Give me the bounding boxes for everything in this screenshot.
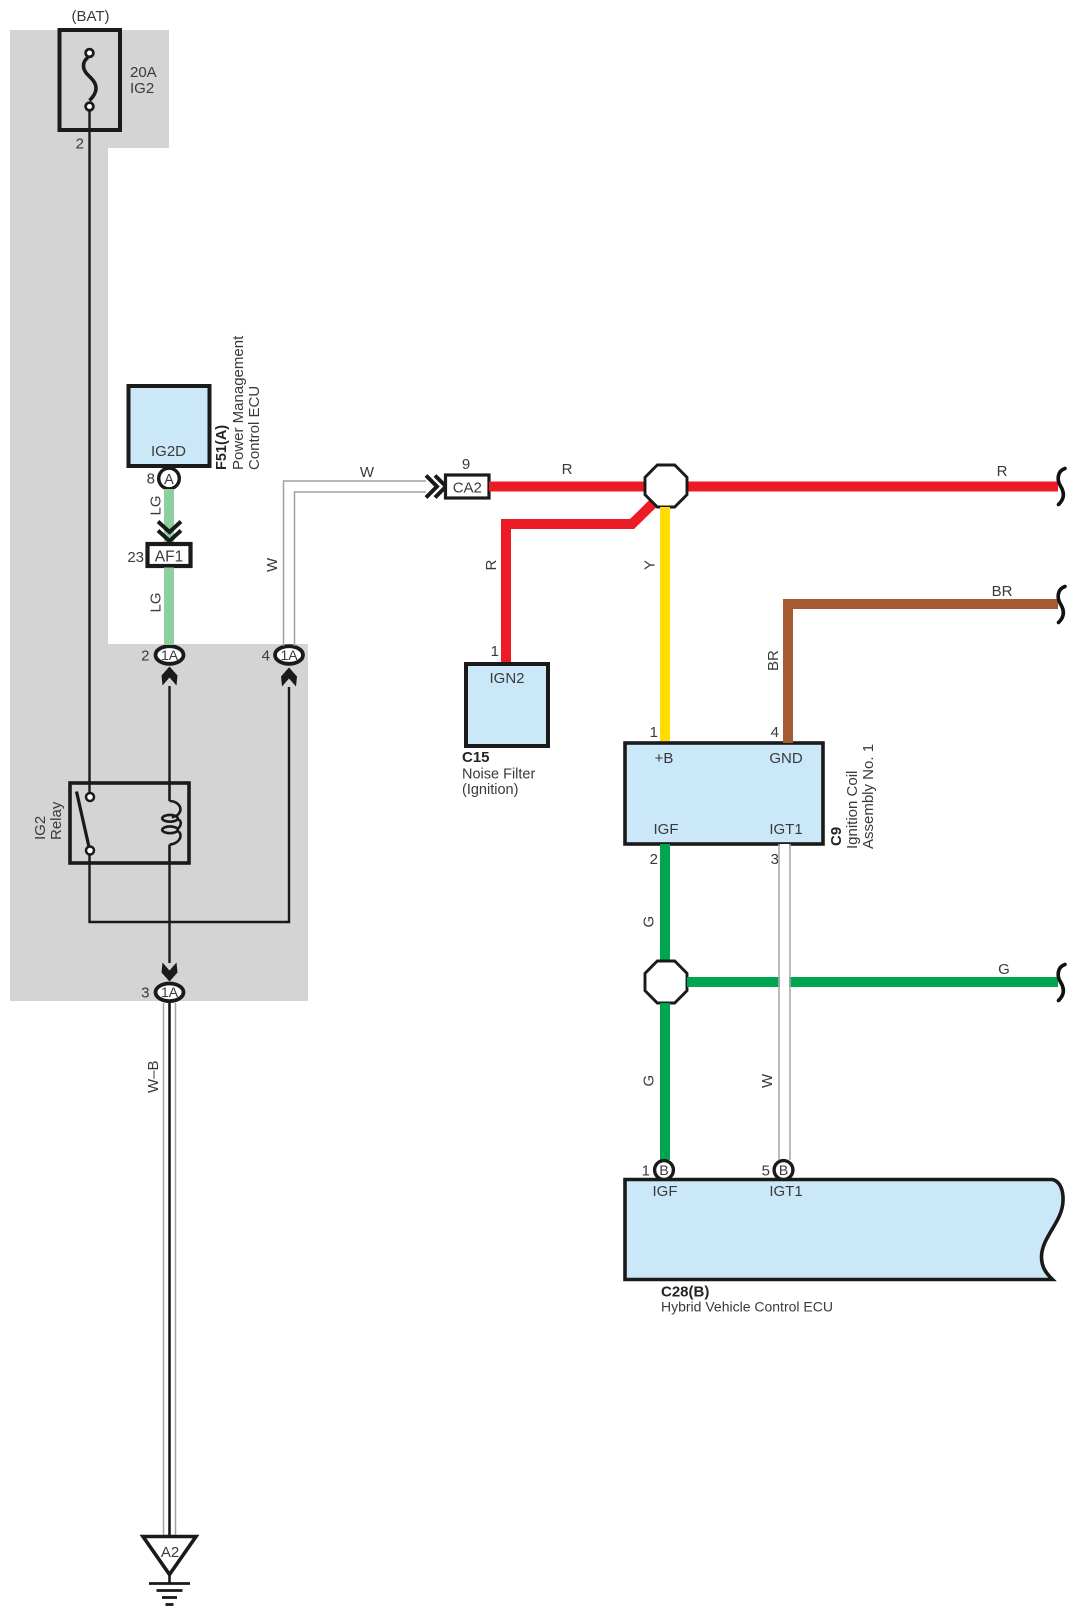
continuation curl BR right xyxy=(1058,587,1065,623)
svg-text:Ignition Coil: Ignition Coil xyxy=(844,771,861,849)
wire W-B from connector 1A pin3 to ground xyxy=(145,1003,176,1537)
wire relay coil down xyxy=(168,863,170,963)
svg-text:IGN2: IGN2 xyxy=(489,670,524,687)
wire G junction to right edge xyxy=(687,977,1058,987)
svg-text:G: G xyxy=(641,916,658,928)
svg-text:GND: GND xyxy=(769,750,803,767)
svg-text:2: 2 xyxy=(76,136,84,153)
svg-text:IG2: IG2 xyxy=(130,80,154,97)
connector CA2 pin 9 xyxy=(446,456,490,498)
svg-text:1: 1 xyxy=(650,724,658,741)
svg-text:W: W xyxy=(264,557,281,572)
svg-text:Hybrid Vehicle Control ECU: Hybrid Vehicle Control ECU xyxy=(661,1299,833,1315)
svg-text:3: 3 xyxy=(141,985,149,1002)
relay coil xyxy=(162,783,181,863)
wire LG lower xyxy=(164,568,174,646)
continuation curl R right xyxy=(1058,469,1065,505)
svg-text:Relay: Relay xyxy=(48,801,65,840)
svg-text:4: 4 xyxy=(771,724,779,741)
svg-text:C15: C15 xyxy=(462,749,490,766)
svg-text:CA2: CA2 xyxy=(453,480,482,497)
wire fuse pin2 to relay switch xyxy=(88,111,90,793)
svg-text:G: G xyxy=(998,961,1010,978)
splice chevrons down xyxy=(158,522,181,542)
svg-text:2: 2 xyxy=(650,851,658,868)
svg-text:1A: 1A xyxy=(161,984,179,1000)
svg-text:1A: 1A xyxy=(161,647,179,663)
junction node octagon lower xyxy=(645,961,687,1003)
continuation curl G right xyxy=(1058,965,1065,1001)
svg-text:R: R xyxy=(483,560,500,571)
relay switch xyxy=(77,792,95,855)
connector oval 1A pin 3 xyxy=(141,984,183,1002)
connector circle B pin 1 xyxy=(642,1161,674,1180)
svg-text:AF1: AF1 xyxy=(155,549,183,566)
svg-text:3: 3 xyxy=(771,851,779,868)
ECU box IG2D F51(A) xyxy=(129,335,264,470)
ground A2 xyxy=(143,1537,196,1605)
svg-text:C9: C9 xyxy=(828,827,845,846)
svg-text:BR: BR xyxy=(765,650,782,671)
svg-text:1: 1 xyxy=(642,1163,650,1180)
arrow into connector 1A pin4 xyxy=(281,668,297,687)
svg-text:LG: LG xyxy=(148,495,165,515)
svg-text:G: G xyxy=(641,1075,658,1087)
wire W from connector 1A pin4 up to CA2 xyxy=(264,464,426,646)
svg-text:W–B: W–B xyxy=(145,1060,162,1093)
svg-text:1: 1 xyxy=(491,643,499,660)
svg-text:(BAT): (BAT) xyxy=(71,8,109,25)
ignition coil box C9 xyxy=(625,724,877,868)
svg-text:Assembly No. 1: Assembly No. 1 xyxy=(860,744,877,849)
svg-text:LG: LG xyxy=(148,592,165,612)
svg-text:W: W xyxy=(360,464,375,481)
svg-text:B: B xyxy=(779,1162,788,1178)
svg-text:8: 8 xyxy=(147,471,155,488)
connector oval 1A pin 4 xyxy=(262,646,303,664)
connector circle A pin 8 xyxy=(147,468,180,489)
svg-text:IGT1: IGT1 xyxy=(769,1183,802,1200)
svg-text:R: R xyxy=(997,463,1008,480)
svg-text:F51(A): F51(A) xyxy=(214,425,230,470)
wire relay switch to terminal 3 and terminal 4 xyxy=(90,687,290,922)
wire R from CA2 to junction xyxy=(489,482,646,492)
wire R from junction to right edge xyxy=(686,482,1058,492)
svg-text:B: B xyxy=(659,1162,668,1178)
wire R branch down to noise filter xyxy=(506,503,654,667)
svg-text:1A: 1A xyxy=(280,647,298,663)
shaded junction block region xyxy=(10,30,308,1001)
svg-text:BR: BR xyxy=(992,583,1013,600)
connector circle B pin 5 xyxy=(762,1161,793,1180)
svg-text:Control ECU: Control ECU xyxy=(246,386,263,470)
junction node octagon upper xyxy=(645,465,687,507)
svg-text:+B: +B xyxy=(655,750,674,767)
svg-text:5: 5 xyxy=(762,1163,770,1180)
fuse IG2 20A xyxy=(60,8,157,153)
svg-text:IGF: IGF xyxy=(654,821,679,838)
svg-text:9: 9 xyxy=(462,456,470,473)
svg-text:W: W xyxy=(759,1073,776,1088)
svg-text:(Ignition): (Ignition) xyxy=(462,782,518,798)
arrow into connector 1A pin2 xyxy=(162,667,178,686)
IG2 relay box xyxy=(32,783,189,863)
wire relay coil up to terminal 2 xyxy=(168,686,170,783)
wire BR from GND to right edge xyxy=(788,604,1058,743)
svg-text:2: 2 xyxy=(141,648,149,665)
connector oval 1A pin 2 xyxy=(141,646,183,664)
splice chevrons right into CA2 xyxy=(426,476,446,498)
wire Y junction to ignition coil xyxy=(660,507,670,743)
svg-text:23: 23 xyxy=(127,549,144,566)
svg-text:IG2D: IG2D xyxy=(151,443,186,460)
svg-text:IGT1: IGT1 xyxy=(769,821,802,838)
svg-text:A2: A2 xyxy=(161,1544,179,1561)
svg-text:Power Management: Power Management xyxy=(230,335,247,470)
wire LG upper xyxy=(164,489,174,544)
noise filter box IGN2 C15 xyxy=(462,643,548,798)
svg-text:IG2: IG2 xyxy=(32,816,49,840)
svg-text:4: 4 xyxy=(262,648,270,665)
junction AF1 pin 23 xyxy=(127,544,190,566)
wire W coil IGT1 down to HV ECU xyxy=(759,844,790,1160)
svg-text:Noise Filter: Noise Filter xyxy=(462,767,535,783)
svg-text:R: R xyxy=(562,461,573,478)
hybrid vehicle control ECU box C28(B) xyxy=(625,1180,1063,1315)
wire G coil IGF down to junction xyxy=(660,844,670,961)
svg-text:A: A xyxy=(164,472,174,488)
wire G junction down to HV ECU xyxy=(660,1003,670,1160)
svg-text:Y: Y xyxy=(642,560,659,570)
svg-text:IGF: IGF xyxy=(653,1183,678,1200)
arrow into connector 1A pin3 xyxy=(162,963,178,982)
svg-text:20A: 20A xyxy=(130,64,157,81)
